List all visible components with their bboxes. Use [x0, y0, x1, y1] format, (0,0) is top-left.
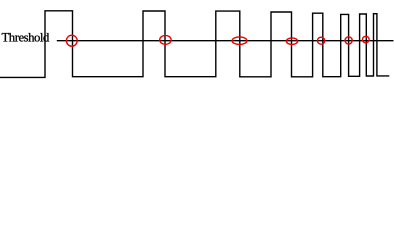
crossing circle 3 [232, 37, 247, 45]
crossing circle 4 [286, 38, 297, 45]
crossing circle 2 [160, 35, 171, 44]
crossing circle 6 [345, 37, 352, 44]
crossing circle 1 [66, 35, 77, 46]
threshold line [57, 40, 394, 42]
waveform pulse train [0, 11, 389, 78]
crossing circle 7 [362, 36, 369, 43]
crossing circle 5 [317, 37, 324, 44]
svg-text:Threshold: Threshold [2, 31, 51, 45]
